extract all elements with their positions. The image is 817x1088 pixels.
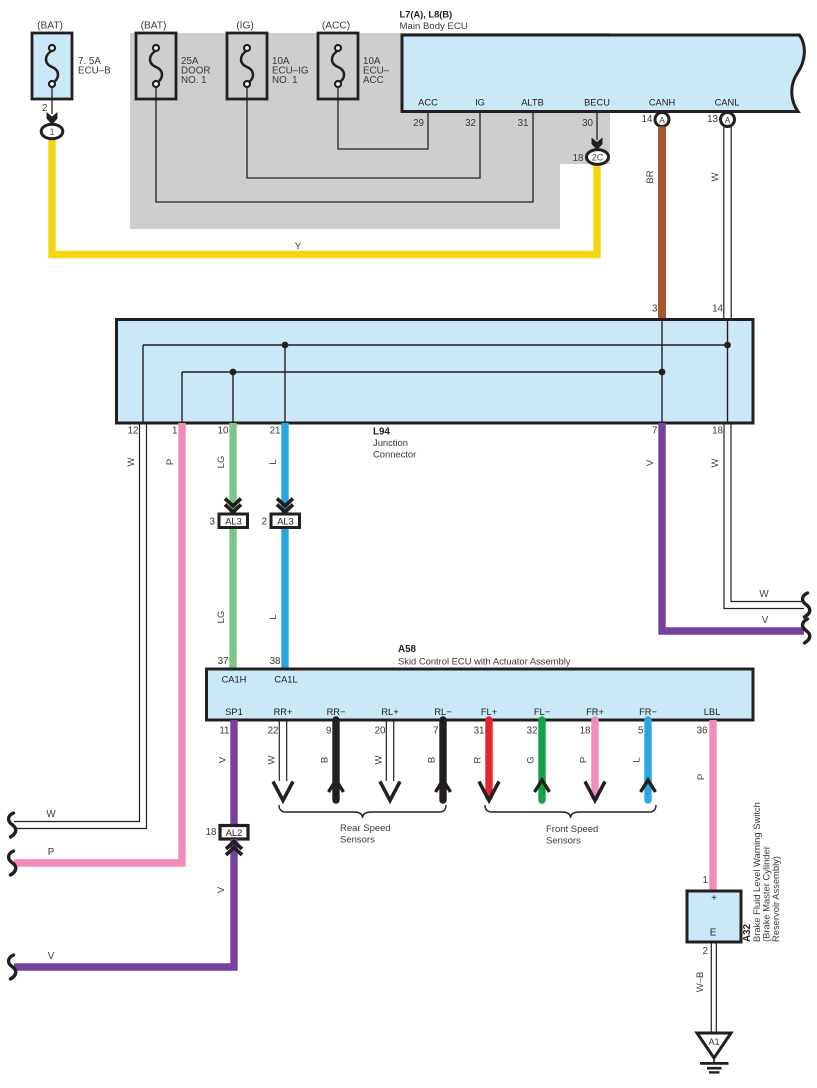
- svg-text:AL3: AL3: [225, 517, 242, 527]
- svg-text:RR+: RR+: [274, 707, 293, 717]
- svg-text:A58: A58: [398, 644, 417, 655]
- svg-text:12: 12: [128, 426, 139, 437]
- svg-text:2: 2: [703, 946, 708, 957]
- svg-text:Connector: Connector: [373, 449, 416, 460]
- svg-text:(BAT): (BAT): [37, 21, 63, 32]
- svg-text:RL−: RL−: [434, 707, 451, 717]
- svg-text:FR+: FR+: [586, 707, 604, 717]
- svg-text:IG: IG: [475, 98, 485, 108]
- svg-text:V: V: [218, 756, 229, 763]
- svg-text:V: V: [216, 886, 227, 893]
- svg-text:31: 31: [518, 118, 529, 129]
- svg-text:P: P: [48, 847, 55, 858]
- svg-text:1: 1: [49, 127, 54, 137]
- svg-text:A: A: [659, 115, 665, 125]
- svg-text:G: G: [526, 756, 537, 763]
- svg-text:32: 32: [527, 726, 538, 737]
- svg-text:36: 36: [697, 726, 708, 737]
- svg-text:V: V: [762, 615, 769, 626]
- svg-text:Skid Control ECU with Actuator: Skid Control ECU with Actuator Assembly: [398, 656, 571, 667]
- svg-text:7: 7: [652, 426, 657, 437]
- svg-text:Y: Y: [295, 242, 302, 253]
- svg-text:14: 14: [712, 304, 723, 315]
- svg-text:W: W: [710, 172, 721, 181]
- svg-text:LG: LG: [216, 456, 227, 469]
- svg-text:ECU–B: ECU–B: [78, 66, 111, 77]
- svg-text:FL+: FL+: [481, 707, 497, 717]
- svg-text:W: W: [759, 589, 769, 600]
- svg-text:18: 18: [573, 153, 584, 164]
- svg-text:Main Body ECU: Main Body ECU: [400, 21, 468, 32]
- svg-text:L: L: [632, 757, 643, 762]
- svg-text:CA1L: CA1L: [274, 675, 297, 685]
- svg-text:Reservoir Assembly): Reservoir Assembly): [770, 856, 781, 942]
- svg-text:B: B: [427, 757, 438, 763]
- svg-text:ACC: ACC: [363, 75, 384, 86]
- svg-text:31: 31: [474, 726, 485, 737]
- svg-text:W: W: [267, 755, 278, 764]
- svg-text:FL−: FL−: [534, 707, 550, 717]
- svg-text:Sensors: Sensors: [546, 836, 581, 847]
- svg-text:14: 14: [642, 114, 653, 125]
- svg-text:29: 29: [413, 118, 424, 129]
- svg-text:32: 32: [465, 118, 476, 129]
- svg-text:37: 37: [218, 656, 229, 667]
- svg-text:38: 38: [270, 656, 281, 667]
- svg-text:A1: A1: [708, 1037, 719, 1047]
- svg-text:1: 1: [172, 426, 177, 437]
- svg-text:ALTB: ALTB: [521, 98, 544, 108]
- svg-text:18: 18: [206, 827, 217, 838]
- svg-text:Front Speed: Front Speed: [546, 824, 598, 835]
- svg-text:3: 3: [652, 304, 658, 315]
- svg-text:W–B: W–B: [695, 972, 706, 993]
- svg-text:NO. 1: NO. 1: [272, 75, 298, 86]
- svg-text:AL3: AL3: [277, 517, 294, 527]
- svg-text:21: 21: [270, 426, 281, 437]
- svg-text:Sensors: Sensors: [340, 835, 375, 846]
- svg-text:+: +: [711, 893, 717, 904]
- svg-text:RR−: RR−: [327, 707, 346, 717]
- svg-text:CANL: CANL: [715, 98, 740, 108]
- svg-text:SP1: SP1: [225, 707, 243, 717]
- svg-text:18: 18: [712, 426, 723, 437]
- svg-text:10: 10: [218, 426, 229, 437]
- svg-text:W: W: [374, 755, 385, 764]
- svg-text:11: 11: [219, 726, 229, 737]
- svg-text:9: 9: [326, 726, 331, 737]
- svg-text:(ACC): (ACC): [322, 21, 350, 32]
- svg-text:(IG): (IG): [236, 21, 254, 32]
- svg-text:B: B: [320, 757, 331, 763]
- svg-text:L94: L94: [373, 427, 390, 438]
- svg-text:BR: BR: [645, 170, 656, 183]
- svg-text:LBL: LBL: [704, 707, 721, 717]
- svg-text:E: E: [710, 928, 717, 939]
- svg-text:V: V: [48, 951, 55, 962]
- svg-text:P: P: [579, 757, 590, 763]
- svg-text:Junction: Junction: [373, 437, 408, 448]
- svg-text:W: W: [46, 809, 56, 820]
- svg-text:CANH: CANH: [649, 98, 675, 108]
- svg-text:13: 13: [707, 114, 718, 125]
- svg-text:W: W: [710, 458, 721, 467]
- svg-text:W: W: [126, 457, 137, 466]
- svg-text:NO. 1: NO. 1: [181, 75, 207, 86]
- svg-text:AL2: AL2: [226, 828, 243, 838]
- svg-text:P: P: [696, 774, 707, 780]
- svg-text:20: 20: [375, 726, 386, 737]
- svg-text:2C: 2C: [592, 152, 604, 162]
- svg-text:L: L: [268, 459, 279, 464]
- svg-text:BECU: BECU: [584, 98, 610, 108]
- svg-text:FR−: FR−: [639, 707, 657, 717]
- svg-text:R: R: [473, 756, 484, 763]
- svg-text:A: A: [725, 115, 731, 125]
- svg-text:2: 2: [262, 517, 267, 528]
- svg-text:5: 5: [638, 726, 644, 737]
- svg-text:L: L: [268, 614, 279, 619]
- svg-text:3: 3: [210, 517, 216, 528]
- svg-text:18: 18: [580, 726, 591, 737]
- svg-text:7: 7: [433, 726, 438, 737]
- svg-text:CA1H: CA1H: [222, 675, 247, 685]
- svg-text:LG: LG: [216, 611, 227, 624]
- svg-text:V: V: [645, 459, 656, 466]
- svg-text:30: 30: [582, 118, 593, 129]
- svg-text:ACC: ACC: [418, 98, 438, 108]
- svg-text:RL+: RL+: [381, 707, 398, 717]
- svg-text:(BAT): (BAT): [141, 21, 167, 32]
- svg-text:Rear Speed: Rear Speed: [340, 823, 391, 834]
- svg-text:1: 1: [703, 875, 708, 886]
- svg-text:22: 22: [268, 726, 279, 737]
- svg-text:P: P: [165, 459, 176, 465]
- svg-text:L7(A), L8(B): L7(A), L8(B): [400, 10, 453, 20]
